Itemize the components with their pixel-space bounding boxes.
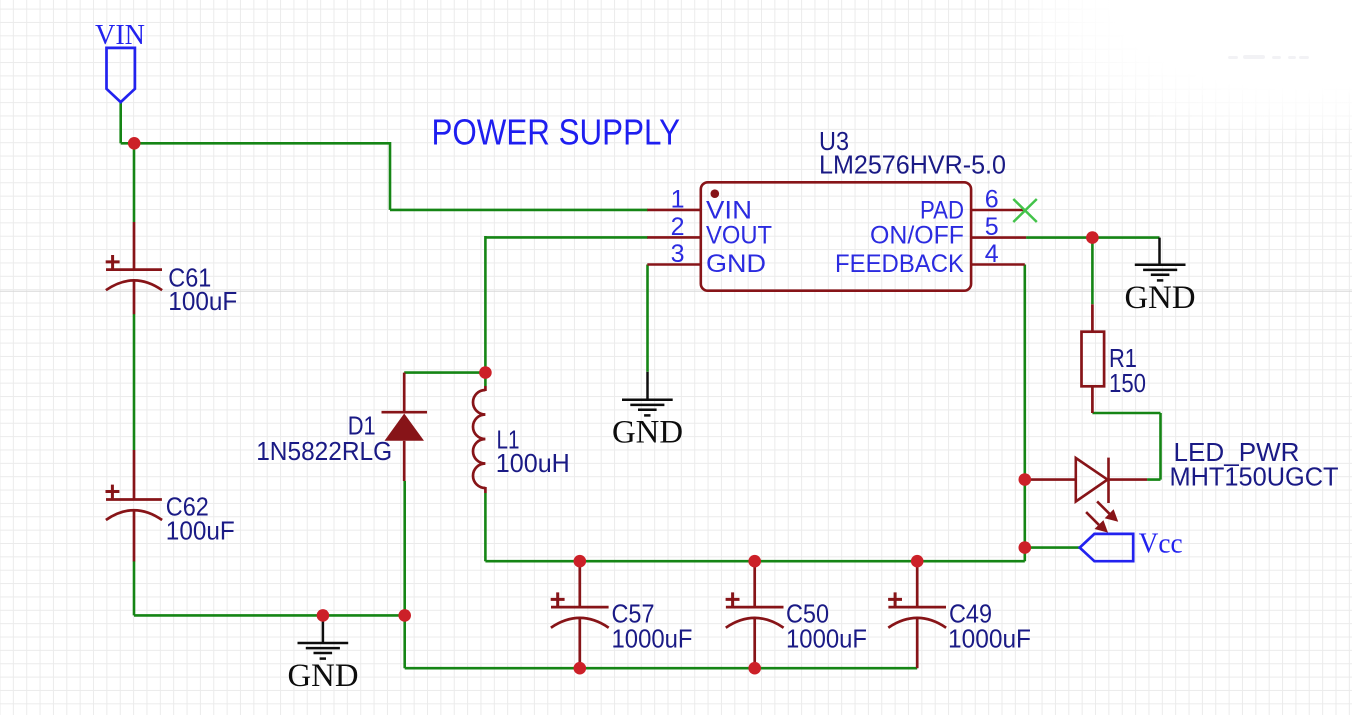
svg-text:GND: GND: [288, 658, 359, 694]
wire node to D1: [404, 371, 485, 374]
wire ON/OFF to GND symbol: [1026, 236, 1159, 239]
svg-text:MHT150UGCT: MHT150UGCT: [1170, 461, 1339, 491]
svg-text:2: 2: [671, 213, 685, 241]
wire corner down: [389, 142, 392, 210]
wire bottom gnd rail: [405, 667, 918, 670]
svg-text:PAD: PAD: [920, 197, 964, 225]
wire junction to C61: [133, 142, 136, 222]
wire VIN to U3 pin1 top run: [121, 142, 390, 145]
node LED junction: [1019, 473, 1032, 486]
svg-text:GND: GND: [1125, 280, 1196, 316]
svg-text:VIN: VIN: [95, 20, 145, 51]
wire R1 top: [1091, 236, 1094, 304]
svg-text:POWER SUPPLY: POWER SUPPLY: [432, 111, 681, 152]
node C50 top junction: [748, 555, 761, 568]
wire VOUT horizontal: [485, 236, 648, 239]
svg-text:100uH: 100uH: [496, 448, 570, 478]
svg-text:100uF: 100uF: [168, 286, 237, 316]
top-right white fade overlay: [995, 0, 1352, 142]
svg-text:GND: GND: [706, 250, 766, 278]
svg-text:150: 150: [1109, 368, 1146, 398]
wire D1 anode down: [403, 481, 406, 668]
svg-text:FEEDBACK: FEEDBACK: [835, 250, 964, 278]
wire feedback vertical: [1024, 265, 1027, 562]
pin 6 stub: [971, 209, 1024, 212]
node D1 GND rail junction: [398, 609, 411, 622]
pin 1 stub: [647, 209, 701, 212]
svg-text:1000uF: 1000uF: [612, 623, 693, 653]
wire LED cathode to R1: [1092, 413, 1160, 480]
pin 2 stub: [647, 236, 701, 239]
node Vcc junction: [1019, 541, 1032, 554]
wire VIN drop: [119, 102, 122, 143]
U3 pin-1 marker dot: [711, 189, 720, 198]
svg-text:5: 5: [985, 213, 999, 241]
LED light arrows: [1086, 501, 1118, 532]
svg-text:1000uF: 1000uF: [948, 623, 1031, 653]
wire L1 bottom: [484, 493, 487, 561]
svg-text:VOUT: VOUT: [706, 221, 772, 249]
wire to Vcc flag: [1025, 546, 1080, 549]
pin 5 stub: [971, 236, 1026, 239]
wire C61 to C62: [133, 314, 136, 450]
svg-text:GND: GND: [612, 415, 683, 451]
svg-text:3: 3: [671, 240, 685, 268]
svg-text:ON/OFF: ON/OFF: [870, 221, 964, 249]
node C49 top junction: [911, 555, 924, 568]
svg-text:LM2576HVR-5.0: LM2576HVR-5.0: [819, 150, 1006, 180]
node VIN junction: [128, 137, 141, 150]
svg-text:100uF: 100uF: [166, 516, 235, 546]
svg-text:VIN: VIN: [706, 197, 752, 225]
node left GND rail junction: [317, 609, 330, 622]
pin 4 stub: [971, 263, 1025, 266]
svg-text:1000uF: 1000uF: [786, 623, 867, 653]
svg-text:1N5822RLG: 1N5822RLG: [256, 436, 392, 466]
svg-text:4: 4: [985, 240, 999, 268]
IC U3 body box: [701, 182, 971, 290]
svg-text:Vcc: Vcc: [1139, 528, 1183, 559]
svg-text:6: 6: [985, 186, 999, 214]
darker grid line: [0, 290, 1352, 292]
pin 3 stub: [647, 263, 701, 266]
node C50 bottom junction: [748, 662, 761, 675]
wire into pin1: [390, 209, 648, 212]
wire pin3 to GND symbol: [646, 265, 649, 372]
node ON/OFF junction: [1086, 231, 1099, 244]
wire VOUT rail: [485, 560, 1024, 563]
node C57 bottom junction: [574, 662, 587, 675]
node VOUT/D1/L1 junction: [479, 366, 492, 379]
wire left gnd rail: [134, 614, 405, 617]
svg-text:1: 1: [671, 186, 685, 214]
node C57 top junction: [574, 555, 587, 568]
wire C62 to gnd rail: [133, 561, 136, 615]
wire VOUT down to D1/L1 node: [484, 236, 487, 386]
